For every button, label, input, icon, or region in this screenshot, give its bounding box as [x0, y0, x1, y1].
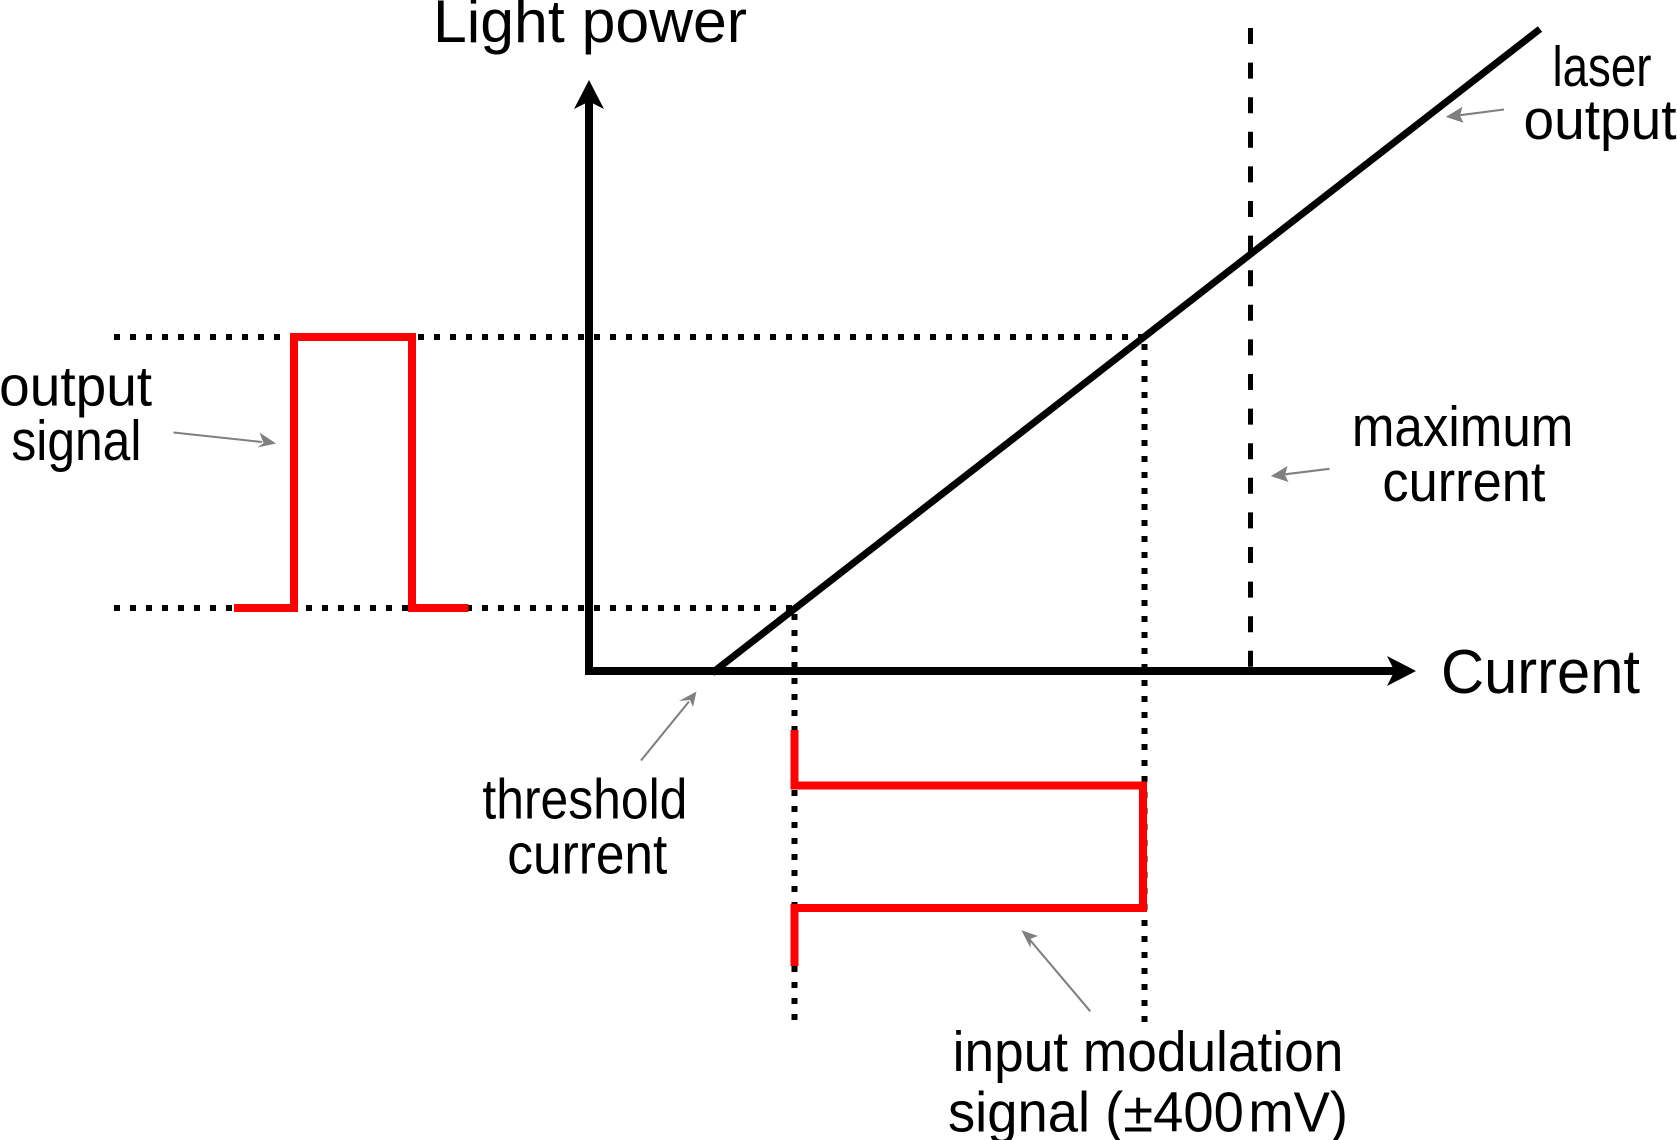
svg-text:Current: Current: [1441, 638, 1640, 707]
dashed line: maximum current vertical: [1248, 28, 1253, 667]
gray arrow to laser output: [1446, 107, 1504, 123]
svg-text:Light power: Light power: [433, 0, 747, 55]
svg-text:current: current: [507, 823, 667, 887]
svg-text:current: current: [1382, 450, 1545, 514]
gray arrow to threshold current: [641, 692, 697, 761]
dotted line: high power level: [114, 334, 1146, 340]
dotted line: high current vertical: [1142, 344, 1148, 1023]
svg-text:signal: signal: [11, 409, 141, 473]
x-axis arrowhead: [1387, 656, 1416, 686]
svg-text:signal (±400 mV): signal (±400 mV): [948, 1081, 1348, 1140]
gray arrow to output signal: [174, 433, 277, 448]
svg-text:output: output: [1524, 88, 1677, 152]
dotted line: low power level: [114, 605, 797, 611]
svg-text:input modulation: input modulation: [953, 1020, 1344, 1084]
gray arrow to input modulation signal: [1021, 930, 1090, 1011]
y-axis arrowhead: [574, 80, 604, 109]
x-axis shaft: [585, 667, 1396, 675]
dotted line: low current vertical: [792, 614, 798, 1023]
output signal pulse (red): [234, 337, 469, 608]
gray arrow to maximum current: [1271, 466, 1330, 482]
input modulation signal (red): [795, 730, 1144, 966]
laser output line: [712, 29, 1540, 673]
y-axis shaft: [585, 101, 593, 674]
